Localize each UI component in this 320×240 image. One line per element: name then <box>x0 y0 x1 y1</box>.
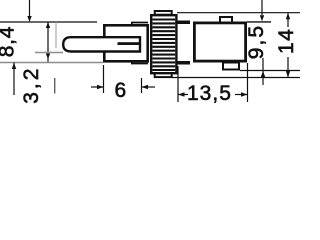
extension line top-left (flange top, y22) <box>0 21 97 23</box>
lamp barrel (bezel) <box>104 25 147 61</box>
svg-text:6: 6 <box>115 79 127 102</box>
svg-text:3,2: 3,2 <box>20 66 43 104</box>
extension line barrel front x103.5 <box>103 65 105 93</box>
dimension 14 top arrow <box>287 13 289 27</box>
extension line tip inner end x141.5 <box>141 78 143 93</box>
svg-text:9,5: 9,5 <box>245 24 268 59</box>
extension line top right y12.7 <box>177 12 300 14</box>
knurl top cap <box>155 11 172 15</box>
dimension 3,2 vertical line at x14 with up arrow <box>13 63 15 96</box>
collar piece top bar <box>178 21 191 25</box>
extension line body back x247.5 <box>247 63 249 102</box>
knurl stripes <box>153 20 176 71</box>
extension line lamp tip end x55 lower part <box>54 78 56 94</box>
collar piece bottom bar <box>178 61 191 65</box>
dimension 6 right outside arrow <box>142 86 155 88</box>
dimension 9,5 top arrow from image top <box>261 0 263 15</box>
dimension 6 line with faint tail <box>91 86 103 88</box>
svg-text:14: 14 <box>275 28 298 54</box>
dimension 9,5 bottom arrow <box>262 58 264 85</box>
knurled ring main body with stripes <box>151 15 176 73</box>
gray extension line flange bottom y62.5 <box>0 62 103 64</box>
extension line knurl bottom right y77.5 <box>172 77 300 79</box>
lamp tip inner middle bar <box>118 42 141 45</box>
arrow down near gray line <box>46 54 50 60</box>
barrel flange lips near knurl <box>132 22 149 24</box>
dimension 13,5 right arrow <box>235 94 248 96</box>
extension line knurl back x178 <box>177 66 179 102</box>
extension line tab bottom right y70.5 <box>240 70 300 72</box>
extension line body top right y22 <box>247 21 271 23</box>
svg-text:13,5: 13,5 <box>187 82 232 105</box>
bottom tab <box>223 63 239 70</box>
dimension 13,5 left arrow <box>178 94 188 96</box>
gray extension line tip bottom y52.5 <box>35 52 63 54</box>
dimension line 8,4 vertical at x48 <box>47 22 49 63</box>
dimension 8,4 outside arrow from image top <box>29 0 31 17</box>
lamp tip (lens) rounded left <box>63 37 140 51</box>
knurl bottom cap <box>155 73 172 77</box>
extension line lamp tip end x55 upper part <box>55 22 57 48</box>
arrow up at y22 <box>46 22 50 28</box>
dimension 14 bottom arrow <box>287 57 289 78</box>
socket body <box>194 23 245 61</box>
top tab <box>220 17 232 23</box>
svg-text:8,4: 8,4 <box>0 26 18 57</box>
